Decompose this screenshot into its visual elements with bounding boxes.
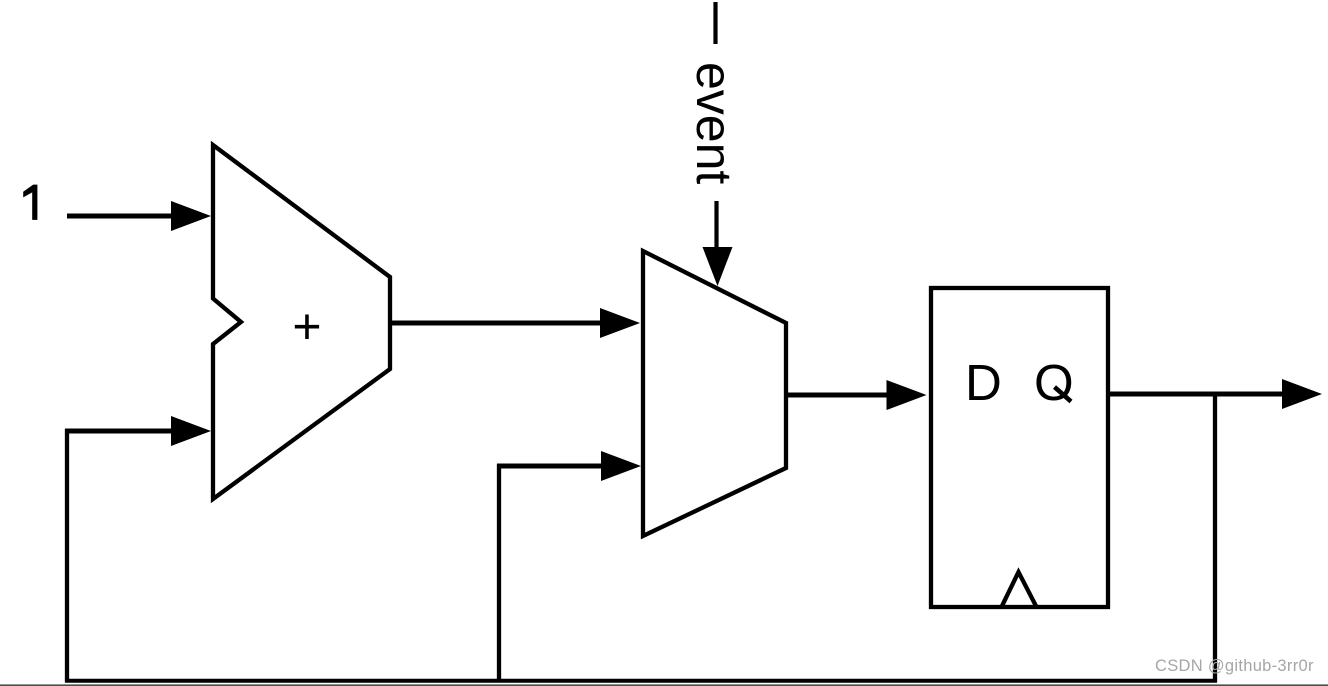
svg-text:D: D xyxy=(965,354,1002,411)
svg-text:event: event xyxy=(686,62,742,184)
svg-text:+: + xyxy=(292,299,321,355)
svg-text:O: O xyxy=(1034,354,1074,411)
svg-text:CSDN @github-3rr0r: CSDN @github-3rr0r xyxy=(1155,657,1314,675)
